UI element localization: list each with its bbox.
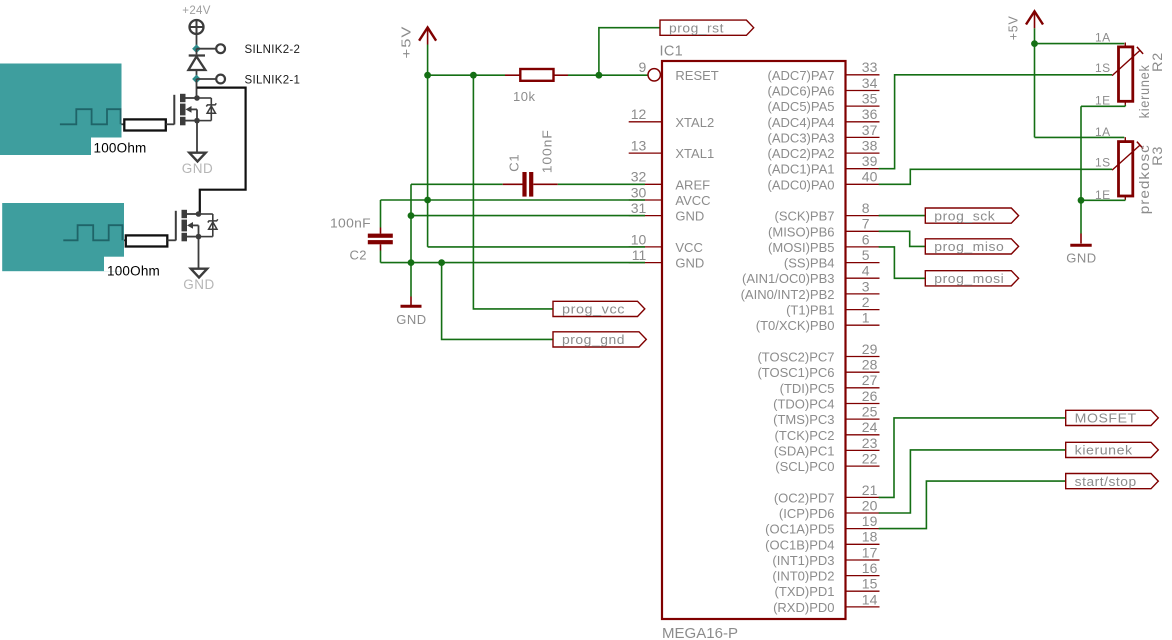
svg-text:C1: C1: [506, 154, 521, 172]
svg-text:10: 10: [631, 231, 647, 247]
junction GND net at C2 row: [408, 259, 415, 266]
pin 30 AVCC (left): [629, 184, 711, 208]
flag kierunek: [1066, 442, 1159, 457]
wire to flag prog_rst: [599, 28, 660, 75]
svg-text:(RXD)PD0: (RXD)PD0: [773, 600, 834, 615]
pin 24 (TCK)PC2 (right): [775, 419, 880, 443]
svg-text:R2: R2: [1149, 52, 1165, 72]
pin 6 (MOSI)PB5 (right): [768, 231, 879, 255]
svg-text:1E: 1E: [1095, 94, 1110, 108]
svg-text:(SCL)PC0: (SCL)PC0: [775, 459, 834, 474]
diode D1 flyback: [188, 56, 205, 71]
resistor R4 100Ohm: [122, 119, 175, 130]
junction GND right: [1078, 197, 1085, 204]
svg-text:7: 7: [862, 216, 870, 232]
svg-text:+5V: +5V: [1006, 15, 1020, 40]
svg-text:1A: 1A: [1095, 30, 1110, 44]
flag prog_rst: [660, 20, 754, 35]
transistor Q2 N-MOSFET: [176, 210, 218, 242]
svg-text:27: 27: [862, 372, 878, 388]
svg-text:prog_sck: prog_sck: [934, 208, 995, 223]
svg-text:C2: C2: [350, 247, 367, 262]
svg-text:(INT0)PD2: (INT0)PD2: [772, 569, 834, 584]
svg-text:RESET: RESET: [675, 68, 718, 83]
connector pad SILNIK2-1: [216, 74, 300, 86]
svg-text:13: 13: [631, 138, 647, 154]
pin 14 (RXD)PD0 (right): [773, 591, 879, 615]
pin 1 (T0/XCK)PB0 (right): [756, 310, 880, 334]
pin 37 (ADC3)PA3 (right): [768, 122, 880, 146]
svg-text:+5V: +5V: [399, 26, 413, 59]
wire pin40 to R3 wiper: [879, 169, 1112, 184]
svg-text:(OC2)PD7: (OC2)PD7: [774, 490, 835, 505]
svg-text:SILNIK2-2: SILNIK2-2: [245, 44, 301, 56]
wire to connector SILNIK2-2: [197, 48, 216, 50]
svg-text:(ADC7)PA7: (ADC7)PA7: [768, 68, 835, 83]
pin 19 (OC1A)PD5 (right): [765, 513, 879, 537]
svg-text:(ADC2)PA2: (ADC2)PA2: [768, 146, 835, 161]
svg-text:(MOSI)PB5: (MOSI)PB5: [768, 240, 834, 255]
svg-text:VCC: VCC: [675, 240, 702, 255]
wire node SILNIK2-1 to Q1 drain: [196, 79, 198, 98]
value label 100Ohm for R5: [104, 257, 165, 279]
flag prog_mosi: [925, 271, 1018, 286]
svg-text:30: 30: [631, 184, 647, 200]
svg-text:23: 23: [862, 435, 878, 451]
svg-text:20: 20: [862, 497, 878, 513]
pin 26 (TDO)PC4 (right): [773, 388, 879, 412]
svg-text:100nF: 100nF: [330, 215, 371, 230]
ground GND below Q1: [182, 153, 214, 176]
svg-text:(TXD)PD1: (TXD)PD1: [775, 584, 835, 599]
wire Q1 source to ground: [196, 121, 198, 153]
wire RESET net (+5V to 10k to pin 9): [428, 74, 648, 76]
pin 10 VCC (left): [629, 231, 703, 255]
wire pin6 to prog_mosi: [879, 247, 926, 278]
pin 35 (ADC5)PA5 (right): [768, 91, 880, 115]
pin 20 (ICP)PD6 (right): [779, 497, 880, 521]
svg-text:100Ohm: 100Ohm: [107, 264, 160, 279]
svg-text:R3: R3: [1149, 146, 1165, 166]
flag prog_sck: [925, 208, 1018, 223]
svg-text:(ADC3)PA3: (ADC3)PA3: [768, 130, 835, 145]
svg-text:(ADC1)PA1: (ADC1)PA1: [768, 162, 835, 177]
svg-text:(ADC4)PA4: (ADC4)PA4: [768, 115, 835, 130]
wire VCC net pin10: [428, 246, 645, 248]
supply +5V (left): [399, 26, 436, 59]
svg-text:28: 28: [862, 357, 878, 373]
pin 33 (ADC7)PA7 (right): [768, 59, 880, 83]
wire pin8 to prog_sck: [879, 215, 926, 217]
svg-text:(INT1)PD3: (INT1)PD3: [772, 553, 834, 568]
svg-text:5: 5: [862, 247, 870, 263]
pin 15 (TXD)PD1 (right): [775, 576, 880, 600]
wire R2 1E to GND net: [1081, 105, 1125, 200]
wire pin21 to flag MOSFET: [879, 418, 1066, 498]
supply +24V symbol: [182, 5, 210, 34]
wire GND31 net pin31: [411, 215, 645, 217]
pin 3 (AIN0/INT2)PB2 (right): [741, 278, 880, 302]
svg-text:14: 14: [862, 591, 878, 607]
svg-text:25: 25: [862, 404, 878, 420]
svg-text:15: 15: [862, 576, 878, 592]
junction AVCC/+5V vertical: [424, 197, 431, 204]
junction AREF/GND31: [408, 212, 415, 219]
connector pad SILNIK2-2: [216, 44, 300, 56]
value label 100Ohm for R4: [91, 138, 150, 158]
svg-text:kierunek: kierunek: [1075, 443, 1133, 458]
svg-text:GND: GND: [675, 209, 704, 224]
resistor R1 10k: [505, 69, 568, 104]
wire GND drop right: [1080, 200, 1082, 233]
flag start/stop: [1066, 474, 1159, 489]
pin 7 (MISO)PB6 (right): [768, 216, 879, 240]
svg-text:XTAL2: XTAL2: [675, 115, 714, 130]
capacitor C1 100nF: [503, 129, 558, 196]
pin 23 (SDA)PC1 (right): [774, 435, 880, 459]
resistor R5 100Ohm: [124, 235, 176, 246]
svg-text:36: 36: [862, 106, 878, 122]
svg-text:8: 8: [862, 200, 870, 216]
svg-text:(TDI)PC5: (TDI)PC5: [780, 381, 835, 396]
svg-text:start/stop: start/stop: [1075, 474, 1137, 489]
svg-text:39: 39: [862, 153, 878, 169]
svg-text:17: 17: [862, 544, 878, 560]
wire +5V vertical to VCC: [427, 75, 429, 247]
ground GND below Q2: [183, 269, 215, 292]
svg-text:(SS)PB4: (SS)PB4: [784, 256, 835, 271]
flag prog_vcc: [553, 301, 645, 316]
junction prog_gnd takeoff: [438, 259, 445, 266]
svg-text:MEGA16-P: MEGA16-P: [662, 626, 738, 640]
wire AVCC net (pin30 to C2 top): [381, 200, 646, 228]
svg-text:(AIN0/INT2)PB2: (AIN0/INT2)PB2: [741, 287, 835, 302]
flag MOSFET: [1066, 410, 1159, 425]
wire +5V down to RESET net: [427, 45, 429, 76]
svg-text:12: 12: [631, 106, 647, 122]
transistor Q1 N-MOSFET: [174, 94, 216, 126]
pin 39 (ADC1)PA1 (right): [768, 153, 880, 177]
svg-text:1S: 1S: [1095, 61, 1110, 75]
pin 17 (INT1)PD3 (right): [772, 544, 879, 568]
svg-text:29: 29: [862, 341, 878, 357]
pin 16 (INT0)PD2 (right): [772, 560, 879, 584]
pin 22 (SCL)PC0 (right): [775, 451, 879, 475]
svg-text:18: 18: [862, 529, 878, 545]
pin 13 XTAL1 (left): [629, 138, 714, 162]
pin 29 (TOSC2)PC7 (right): [757, 341, 879, 365]
svg-text:(MISO)PB6: (MISO)PB6: [768, 224, 834, 239]
wire pin20 to flag kierunek: [879, 450, 1066, 513]
svg-text:GND: GND: [675, 256, 704, 271]
potentiometer R3 predkosc: [1095, 125, 1165, 214]
svg-text:(ADC0)PA0: (ADC0)PA0: [768, 177, 835, 192]
svg-text:34: 34: [862, 75, 878, 91]
svg-text:24: 24: [862, 419, 878, 435]
svg-text:GND: GND: [396, 312, 426, 327]
pin 21 (OC2)PD7 (right): [774, 482, 880, 506]
svg-text:6: 6: [862, 231, 870, 247]
svg-text:XTAL1: XTAL1: [675, 146, 714, 161]
wire AREF net (pin32 to C1 to vertical): [411, 183, 645, 185]
svg-text:32: 32: [631, 169, 647, 185]
svg-text:prog_miso: prog_miso: [934, 239, 1004, 254]
pin 25 (TMS)PC3 (right): [773, 404, 879, 428]
wire node SILNIK2-2 to diode D1: [196, 49, 198, 55]
svg-text:(TCK)PC2: (TCK)PC2: [775, 428, 835, 443]
pin 34 (ADC6)PA6 (right): [768, 75, 880, 99]
junction prog_vcc takeoff: [470, 72, 477, 79]
svg-text:31: 31: [631, 200, 647, 216]
wire +24V to node SILNIK2-2: [196, 34, 198, 48]
svg-text:+24V: +24V: [182, 5, 210, 17]
wire diode D1 to node SILNIK2-1: [196, 70, 198, 79]
op IC1 MEGA16-P body: [660, 43, 846, 640]
svg-text:GND: GND: [183, 277, 215, 292]
pin 9 RESET inversion bubble: [639, 59, 719, 83]
svg-text:4: 4: [862, 263, 870, 279]
potentiometer R2 kierunek: [1095, 30, 1165, 118]
svg-text:AREF: AREF: [675, 177, 710, 192]
wire to flag prog_gnd: [442, 263, 553, 340]
pin 11 GND (left): [629, 247, 705, 271]
pin 38 (ADC2)PA2 (right): [768, 138, 880, 162]
pin 12 XTAL2 (left): [629, 106, 714, 130]
pin 8 (SCK)PB7 (right): [775, 200, 880, 224]
wire pin7 to prog_miso: [879, 231, 926, 246]
svg-text:26: 26: [862, 388, 878, 404]
junction on +5V at x=427.6: [424, 72, 431, 79]
svg-text:1: 1: [862, 310, 870, 326]
svg-text:(T0/XCK)PB0: (T0/XCK)PB0: [756, 318, 835, 333]
svg-text:1A: 1A: [1095, 125, 1110, 139]
svg-text:(OC1A)PD5: (OC1A)PD5: [765, 522, 834, 537]
svg-text:prog_gnd: prog_gnd: [562, 332, 625, 347]
pin 4 (AIN1/OC0)PB3 (right): [742, 263, 879, 287]
wire +5V down to R3 1A: [1035, 44, 1125, 138]
svg-text:(TDO)PC4: (TDO)PC4: [773, 397, 834, 412]
svg-text:40: 40: [862, 169, 878, 185]
svg-text:10k: 10k: [513, 89, 535, 104]
svg-text:AVCC: AVCC: [675, 193, 710, 208]
flag prog_miso: [925, 239, 1018, 254]
svg-text:(OC1B)PD4: (OC1B)PD4: [765, 537, 834, 552]
pin 32 AREF (left): [629, 169, 710, 193]
wire to flag prog_vcc: [473, 75, 553, 309]
wire SILNIK2-1 branch to Q2 drain: [197, 88, 246, 214]
svg-text:GND: GND: [1066, 251, 1096, 266]
wire Q2 source to ground: [198, 237, 200, 269]
pin 40 (ADC0)PA0 (right): [768, 169, 880, 193]
svg-text:MOSFET: MOSFET: [1075, 411, 1137, 426]
svg-text:22: 22: [862, 451, 878, 467]
svg-text:prog_rst: prog_rst: [669, 21, 724, 36]
wire +5V to R2 1A: [1035, 28, 1125, 43]
wire pin39 to R2 wiper: [879, 75, 1112, 169]
svg-text:3: 3: [862, 278, 870, 294]
svg-text:prog_vcc: prog_vcc: [562, 302, 625, 317]
svg-text:(SCK)PB7: (SCK)PB7: [775, 209, 835, 224]
junction node SILNIK2-2 (teal): [192, 44, 201, 53]
svg-text:(ADC5)PA5: (ADC5)PA5: [768, 99, 835, 114]
svg-text:35: 35: [862, 91, 878, 107]
svg-text:37: 37: [862, 122, 878, 138]
svg-text:1S: 1S: [1095, 156, 1110, 170]
svg-text:(TOSC1)PC6: (TOSC1)PC6: [757, 365, 834, 380]
svg-text:SILNIK2-1: SILNIK2-1: [245, 74, 301, 86]
wire AREF vertical to GND net: [410, 184, 412, 262]
wire to connector SILNIK2-1: [197, 78, 216, 80]
pin 5 (SS)PB4 (right): [784, 247, 880, 271]
supply +5V (right): [1006, 11, 1043, 40]
svg-text:11: 11: [632, 247, 647, 263]
pin 31 GND (left): [629, 200, 705, 224]
wire R3 1E to GND net: [1081, 199, 1125, 202]
wire GND symbol drop: [410, 263, 412, 297]
capacitor C2 100nF: [330, 215, 393, 262]
junction node SILNIK2-1 (teal): [192, 75, 201, 84]
ground GND (C2/AVCC net): [396, 297, 426, 328]
svg-text:prog_mosi: prog_mosi: [934, 271, 1004, 286]
wire pin19 to flag start/stop: [879, 481, 1066, 528]
svg-text:100nF: 100nF: [540, 129, 555, 173]
svg-text:(TMS)PC3: (TMS)PC3: [773, 412, 834, 427]
svg-text:IC1: IC1: [660, 43, 683, 59]
svg-text:19: 19: [862, 513, 878, 529]
svg-text:21: 21: [862, 482, 878, 498]
junction +5V right: [1031, 40, 1038, 47]
svg-text:(T1)PB1: (T1)PB1: [786, 303, 834, 318]
svg-text:(TOSC2)PC7: (TOSC2)PC7: [757, 350, 834, 365]
pin 36 (ADC4)PA4 (right): [768, 106, 880, 130]
svg-text:(ADC6)PA6: (ADC6)PA6: [768, 84, 835, 99]
junction prog_rst takeoff: [596, 72, 603, 79]
svg-text:16: 16: [862, 560, 878, 576]
svg-text:100Ohm: 100Ohm: [94, 141, 147, 156]
ground GND (R2/R3): [1066, 234, 1096, 266]
pin 28 (TOSC1)PC6 (right): [757, 357, 879, 381]
PWM source block 2 (teal): [2, 203, 124, 271]
svg-text:(ICP)PD6: (ICP)PD6: [779, 506, 835, 521]
svg-text:GND: GND: [182, 161, 214, 176]
svg-text:9: 9: [639, 59, 647, 75]
svg-text:38: 38: [862, 138, 878, 154]
pin 2 (T1)PB1 (right): [786, 294, 879, 318]
PWM source block 1 (teal): [0, 64, 122, 156]
pin 27 (TDI)PC5 (right): [780, 372, 880, 396]
svg-text:2: 2: [862, 294, 870, 310]
svg-text:(SDA)PC1: (SDA)PC1: [774, 443, 835, 458]
wire GND net (C2 bottom, pin11): [381, 251, 646, 263]
svg-text:(AIN1/OC0)PB3: (AIN1/OC0)PB3: [742, 271, 834, 286]
pin 18 (OC1B)PD4 (right): [765, 529, 879, 553]
flag prog_gnd: [553, 332, 646, 347]
svg-text:33: 33: [862, 59, 878, 75]
